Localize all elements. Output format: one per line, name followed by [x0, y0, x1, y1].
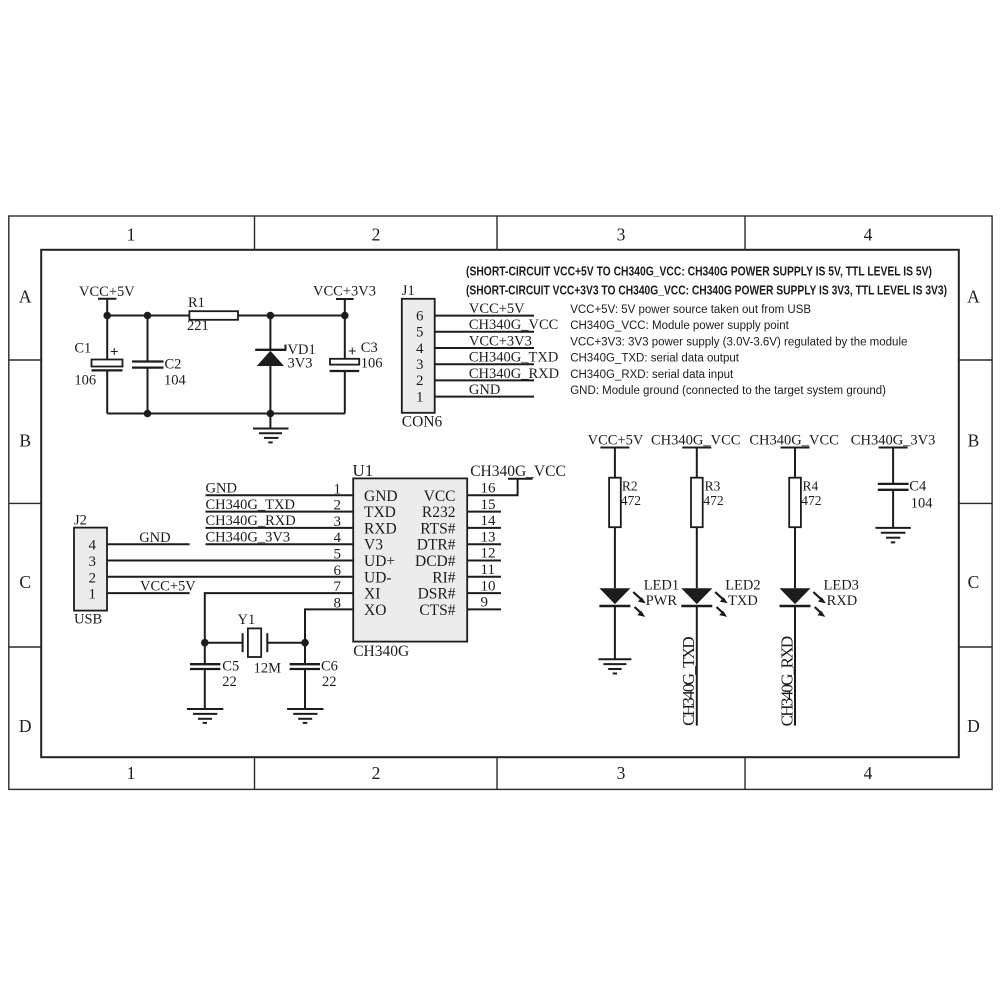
svg-text:106: 106 — [74, 373, 96, 389]
svg-text:16: 16 — [481, 481, 497, 497]
U1 left stubs pins 1-4 — [206, 495, 354, 544]
wire J2 pin4 GND stub — [107, 543, 190, 545]
svg-text:DTR#: DTR# — [417, 537, 456, 554]
svg-text:CTS#: CTS# — [419, 602, 455, 619]
U1 right pin names — [415, 488, 456, 619]
power flag CH340G_VCC b — [781, 447, 810, 449]
svg-text:B: B — [968, 430, 980, 450]
svg-text:GND: GND — [139, 530, 170, 546]
svg-text:C3: C3 — [361, 340, 378, 356]
svg-text:+: + — [110, 345, 119, 361]
wire C5 bottom — [204, 669, 206, 709]
svg-text:VCC+5V: 5V power source taken: VCC+5V: 5V power source taken out from U… — [570, 304, 811, 316]
power flag VCC+3V3 — [336, 298, 354, 300]
svg-text:R3: R3 — [705, 479, 721, 494]
svg-text:11: 11 — [481, 562, 495, 578]
svg-text:6: 6 — [416, 308, 424, 324]
svg-text:221: 221 — [187, 318, 209, 334]
svg-text:GND: GND — [364, 488, 398, 505]
wire R4 to LED3 — [794, 527, 796, 588]
svg-text:GND: GND — [469, 382, 500, 398]
svg-text:R232: R232 — [422, 504, 456, 521]
wire C6 bottom — [304, 669, 306, 709]
svg-text:C6: C6 — [321, 659, 338, 675]
svg-text:22: 22 — [222, 674, 237, 690]
svg-text:CH340G_VCC: CH340G_VCC — [749, 432, 838, 448]
svg-text:DSR#: DSR# — [418, 586, 456, 603]
wire LED1 to ground — [614, 606, 616, 659]
wire top rail — [107, 315, 345, 317]
resistor R1 — [189, 311, 238, 320]
power flag CH340G_VCC a — [682, 447, 711, 449]
svg-text:B: B — [19, 430, 31, 450]
svg-text:C2: C2 — [165, 357, 182, 373]
svg-text:9: 9 — [481, 595, 489, 611]
U1 right pin stubs — [467, 512, 501, 610]
LED1 arrows — [633, 592, 646, 617]
svg-text:C1: C1 — [74, 341, 91, 357]
svg-text:CH340G_3V3: CH340G_3V3 — [206, 529, 291, 545]
border frame inner — [41, 250, 959, 757]
svg-text:2: 2 — [89, 570, 97, 586]
zener diode VD1 — [255, 349, 286, 351]
power flag VCC+5V — [98, 298, 116, 300]
wire crystal left — [205, 642, 243, 644]
svg-text:CH340G_VCC: CH340G_VCC — [470, 463, 566, 480]
wire C5 top — [204, 643, 206, 663]
capacitor C3 plates — [330, 359, 359, 365]
svg-text:CH340G_VCC: Module power suppl: CH340G_VCC: Module power supply point — [570, 320, 789, 332]
resistor R2 — [609, 478, 621, 528]
crystal Y1 — [242, 633, 244, 652]
svg-text:CH340G_TXD: CH340G_TXD — [679, 637, 698, 726]
svg-text:3: 3 — [416, 357, 424, 373]
junction dots top rail — [103, 312, 348, 418]
svg-text:XO: XO — [364, 602, 386, 619]
J1 pin numbers — [416, 308, 424, 405]
wire R3 to LED2 — [696, 527, 698, 588]
wire C2 bottom — [147, 368, 149, 414]
U1 left pin names — [364, 488, 398, 619]
svg-text:D: D — [967, 716, 980, 736]
svg-text:1: 1 — [127, 225, 136, 245]
wire U1 pin8 XO down to crystal — [305, 609, 353, 642]
svg-text:RI#: RI# — [432, 569, 456, 586]
resistor R4 — [789, 478, 801, 528]
svg-text:5: 5 — [416, 325, 424, 341]
wire U1 pin6 to J2 pin2 — [107, 576, 353, 578]
svg-text:C5: C5 — [222, 659, 239, 675]
svg-text:C: C — [968, 572, 980, 592]
svg-text:A: A — [967, 287, 980, 307]
svg-text:Y1: Y1 — [238, 612, 256, 628]
svg-text:(SHORT-CIRCUIT VCC+5V TO CH340: (SHORT-CIRCUIT VCC+5V TO CH340G_VCC: CH3… — [466, 264, 932, 279]
svg-text:472: 472 — [621, 493, 641, 508]
wire C2 top — [147, 316, 149, 362]
U1 right pin numbers — [481, 481, 497, 611]
svg-text:VCC+5V: VCC+5V — [140, 579, 196, 595]
wire C1 top — [106, 316, 108, 360]
svg-text:104: 104 — [911, 495, 934, 511]
resistor R3 — [691, 478, 703, 528]
svg-text:CH340G_TXD: serial data output: CH340G_TXD: serial data output — [570, 353, 740, 365]
svg-text:CH340G: CH340G — [353, 643, 409, 660]
svg-text:CH340G_RXD: serial data input: CH340G_RXD: serial data input — [570, 369, 734, 381]
svg-text:3: 3 — [334, 514, 342, 530]
svg-text:PWR: PWR — [646, 593, 678, 609]
power flag VCC+5V right — [600, 448, 907, 483]
svg-text:4: 4 — [416, 341, 424, 357]
svg-text:C4: C4 — [909, 478, 927, 494]
svg-text:104: 104 — [164, 373, 187, 389]
svg-text:2: 2 — [416, 373, 424, 389]
svg-text:14: 14 — [481, 513, 497, 529]
wire LED2 down — [696, 606, 698, 726]
LED1 — [599, 588, 630, 604]
wire C6 top — [304, 643, 306, 663]
svg-text:4: 4 — [864, 763, 873, 783]
svg-text:13: 13 — [481, 529, 496, 545]
svg-text:3: 3 — [617, 225, 626, 245]
wire crystal right — [267, 642, 305, 644]
capacitor C6 plates — [290, 663, 320, 665]
J1 net labels — [469, 301, 559, 398]
connector J2 box — [74, 528, 107, 611]
svg-text:4: 4 — [89, 538, 97, 554]
svg-text:LED2: LED2 — [725, 578, 760, 594]
svg-text:TXD: TXD — [364, 504, 396, 521]
svg-text:J1: J1 — [402, 283, 415, 299]
wire VD1 top — [269, 316, 271, 350]
svg-text:UD+: UD+ — [364, 553, 395, 570]
svg-text:GND: Module ground (connected: GND: Module ground (connected to the tar… — [570, 385, 886, 397]
connector J1 box — [402, 299, 435, 413]
svg-text:D: D — [19, 716, 32, 736]
svg-text:LED1: LED1 — [644, 578, 679, 594]
svg-text:CH340G_RXD: CH340G_RXD — [777, 636, 796, 726]
capacitor C2 plates — [132, 360, 164, 362]
svg-text:22: 22 — [322, 674, 337, 690]
svg-text:1: 1 — [334, 481, 342, 497]
capacitor C5 plates — [190, 663, 220, 665]
svg-text:LED3: LED3 — [824, 578, 859, 594]
svg-text:XI: XI — [364, 586, 380, 603]
svg-text:RTS#: RTS# — [420, 520, 455, 537]
svg-text:VCC+5V: VCC+5V — [79, 284, 135, 300]
svg-text:12M: 12M — [254, 660, 282, 676]
border frame outer — [9, 216, 992, 789]
wire pin16 to CH340G_VCC — [467, 479, 532, 496]
svg-text:VCC+5V: VCC+5V — [588, 432, 644, 448]
svg-text:2: 2 — [372, 225, 381, 245]
svg-text:2: 2 — [334, 498, 342, 514]
crystal labels — [222, 612, 338, 690]
svg-text:VCC: VCC — [424, 488, 456, 505]
svg-text:CON6: CON6 — [402, 414, 443, 431]
LED2 — [681, 588, 712, 604]
svg-text:V3: V3 — [364, 537, 383, 554]
ground below C5 — [187, 709, 223, 723]
junction dots crystal — [201, 639, 309, 647]
frame labels — [19, 225, 980, 784]
svg-text:CH340G_RXD: CH340G_RXD — [469, 366, 559, 382]
svg-text:DCD#: DCD# — [415, 553, 456, 570]
J1 pin stub wires — [435, 316, 534, 397]
svg-text:UD-: UD- — [364, 569, 392, 586]
LED3 — [780, 588, 811, 604]
ground below VD1 — [253, 414, 289, 443]
svg-text:472: 472 — [703, 493, 723, 508]
wire J2 pin1 VCC+5V stub — [107, 592, 190, 594]
frame column ticks — [9, 216, 992, 789]
svg-text:VCC+3V3: VCC+3V3 — [469, 333, 532, 349]
svg-text:2: 2 — [372, 763, 381, 783]
wire VD1 bottom — [269, 365, 271, 414]
svg-text:1: 1 — [127, 763, 136, 783]
svg-text:472: 472 — [801, 493, 821, 508]
wire C3 top — [344, 316, 346, 359]
svg-text:+: + — [348, 344, 357, 360]
svg-text:TXD: TXD — [728, 593, 758, 609]
note text block — [466, 264, 947, 298]
svg-text:4: 4 — [334, 530, 342, 546]
power flag CH340G_3V3 — [879, 447, 908, 449]
svg-text:GND: GND — [206, 481, 237, 497]
svg-text:VCC+3V3: 3V3 power supply (3.0: VCC+3V3: 3V3 power supply (3.0V-3.6V) re… — [570, 336, 907, 348]
wire bottom rail — [107, 413, 345, 415]
svg-text:R2: R2 — [622, 479, 638, 494]
svg-text:106: 106 — [361, 356, 383, 372]
svg-text:3: 3 — [89, 554, 97, 570]
ground below LED1 — [598, 659, 631, 673]
op-amp U1 box — [353, 478, 467, 641]
svg-text:USB: USB — [74, 612, 102, 628]
capacitor C4 — [878, 484, 909, 490]
svg-text:J2: J2 — [74, 513, 87, 529]
svg-text:RXD: RXD — [827, 593, 858, 609]
net labels pins 1-4 — [206, 481, 296, 546]
svg-text:A: A — [19, 287, 32, 307]
svg-text:U1: U1 — [353, 461, 374, 480]
wire C1 bottom — [106, 370, 108, 413]
svg-text:R4: R4 — [803, 479, 819, 494]
svg-text:RXD: RXD — [364, 520, 397, 537]
J2 pin numbers — [89, 538, 97, 603]
svg-text:10: 10 — [481, 578, 496, 594]
U1 left pin numbers — [334, 481, 342, 611]
svg-text:12: 12 — [481, 546, 496, 562]
wire LED3 down — [794, 606, 796, 726]
svg-text:CH340G_RXD: CH340G_RXD — [206, 513, 296, 529]
ground below C4 — [876, 528, 911, 543]
svg-text:(SHORT-CIRCUIT VCC+3V3 TO CH34: (SHORT-CIRCUIT VCC+3V3 TO CH340G_VCC: CH… — [466, 282, 947, 297]
svg-text:CH340G_VCC: CH340G_VCC — [469, 317, 558, 333]
svg-text:1: 1 — [89, 587, 97, 603]
svg-text:15: 15 — [481, 497, 496, 513]
svg-text:CH340G_VCC: CH340G_VCC — [651, 432, 740, 448]
wire U1 pin7 XI down to crystal — [205, 593, 353, 643]
svg-text:R1: R1 — [188, 295, 205, 311]
svg-text:4: 4 — [864, 225, 873, 245]
wire U1 pin5 to J2 pin3 — [107, 560, 353, 562]
svg-text:CH340G_3V3: CH340G_3V3 — [851, 432, 936, 448]
wire C3 bottom — [344, 371, 346, 414]
svg-text:CH340G_TXD: CH340G_TXD — [469, 350, 558, 366]
rail labels — [588, 432, 936, 448]
svg-text:3: 3 — [617, 763, 626, 783]
svg-text:CH340G_TXD: CH340G_TXD — [206, 497, 295, 513]
capacitor C1 plates — [92, 360, 123, 367]
wire R2 to LED1 — [614, 527, 616, 588]
svg-text:C: C — [19, 572, 31, 592]
svg-text:3V3: 3V3 — [288, 356, 313, 372]
svg-text:VCC+5V: VCC+5V — [469, 301, 525, 317]
power section labels — [74, 284, 382, 389]
svg-text:1: 1 — [416, 389, 424, 405]
ground below C6 — [287, 709, 323, 723]
LED3 arrows — [813, 592, 826, 617]
LED2 arrows — [715, 592, 728, 617]
svg-text:VCC+3V3: VCC+3V3 — [313, 284, 376, 300]
